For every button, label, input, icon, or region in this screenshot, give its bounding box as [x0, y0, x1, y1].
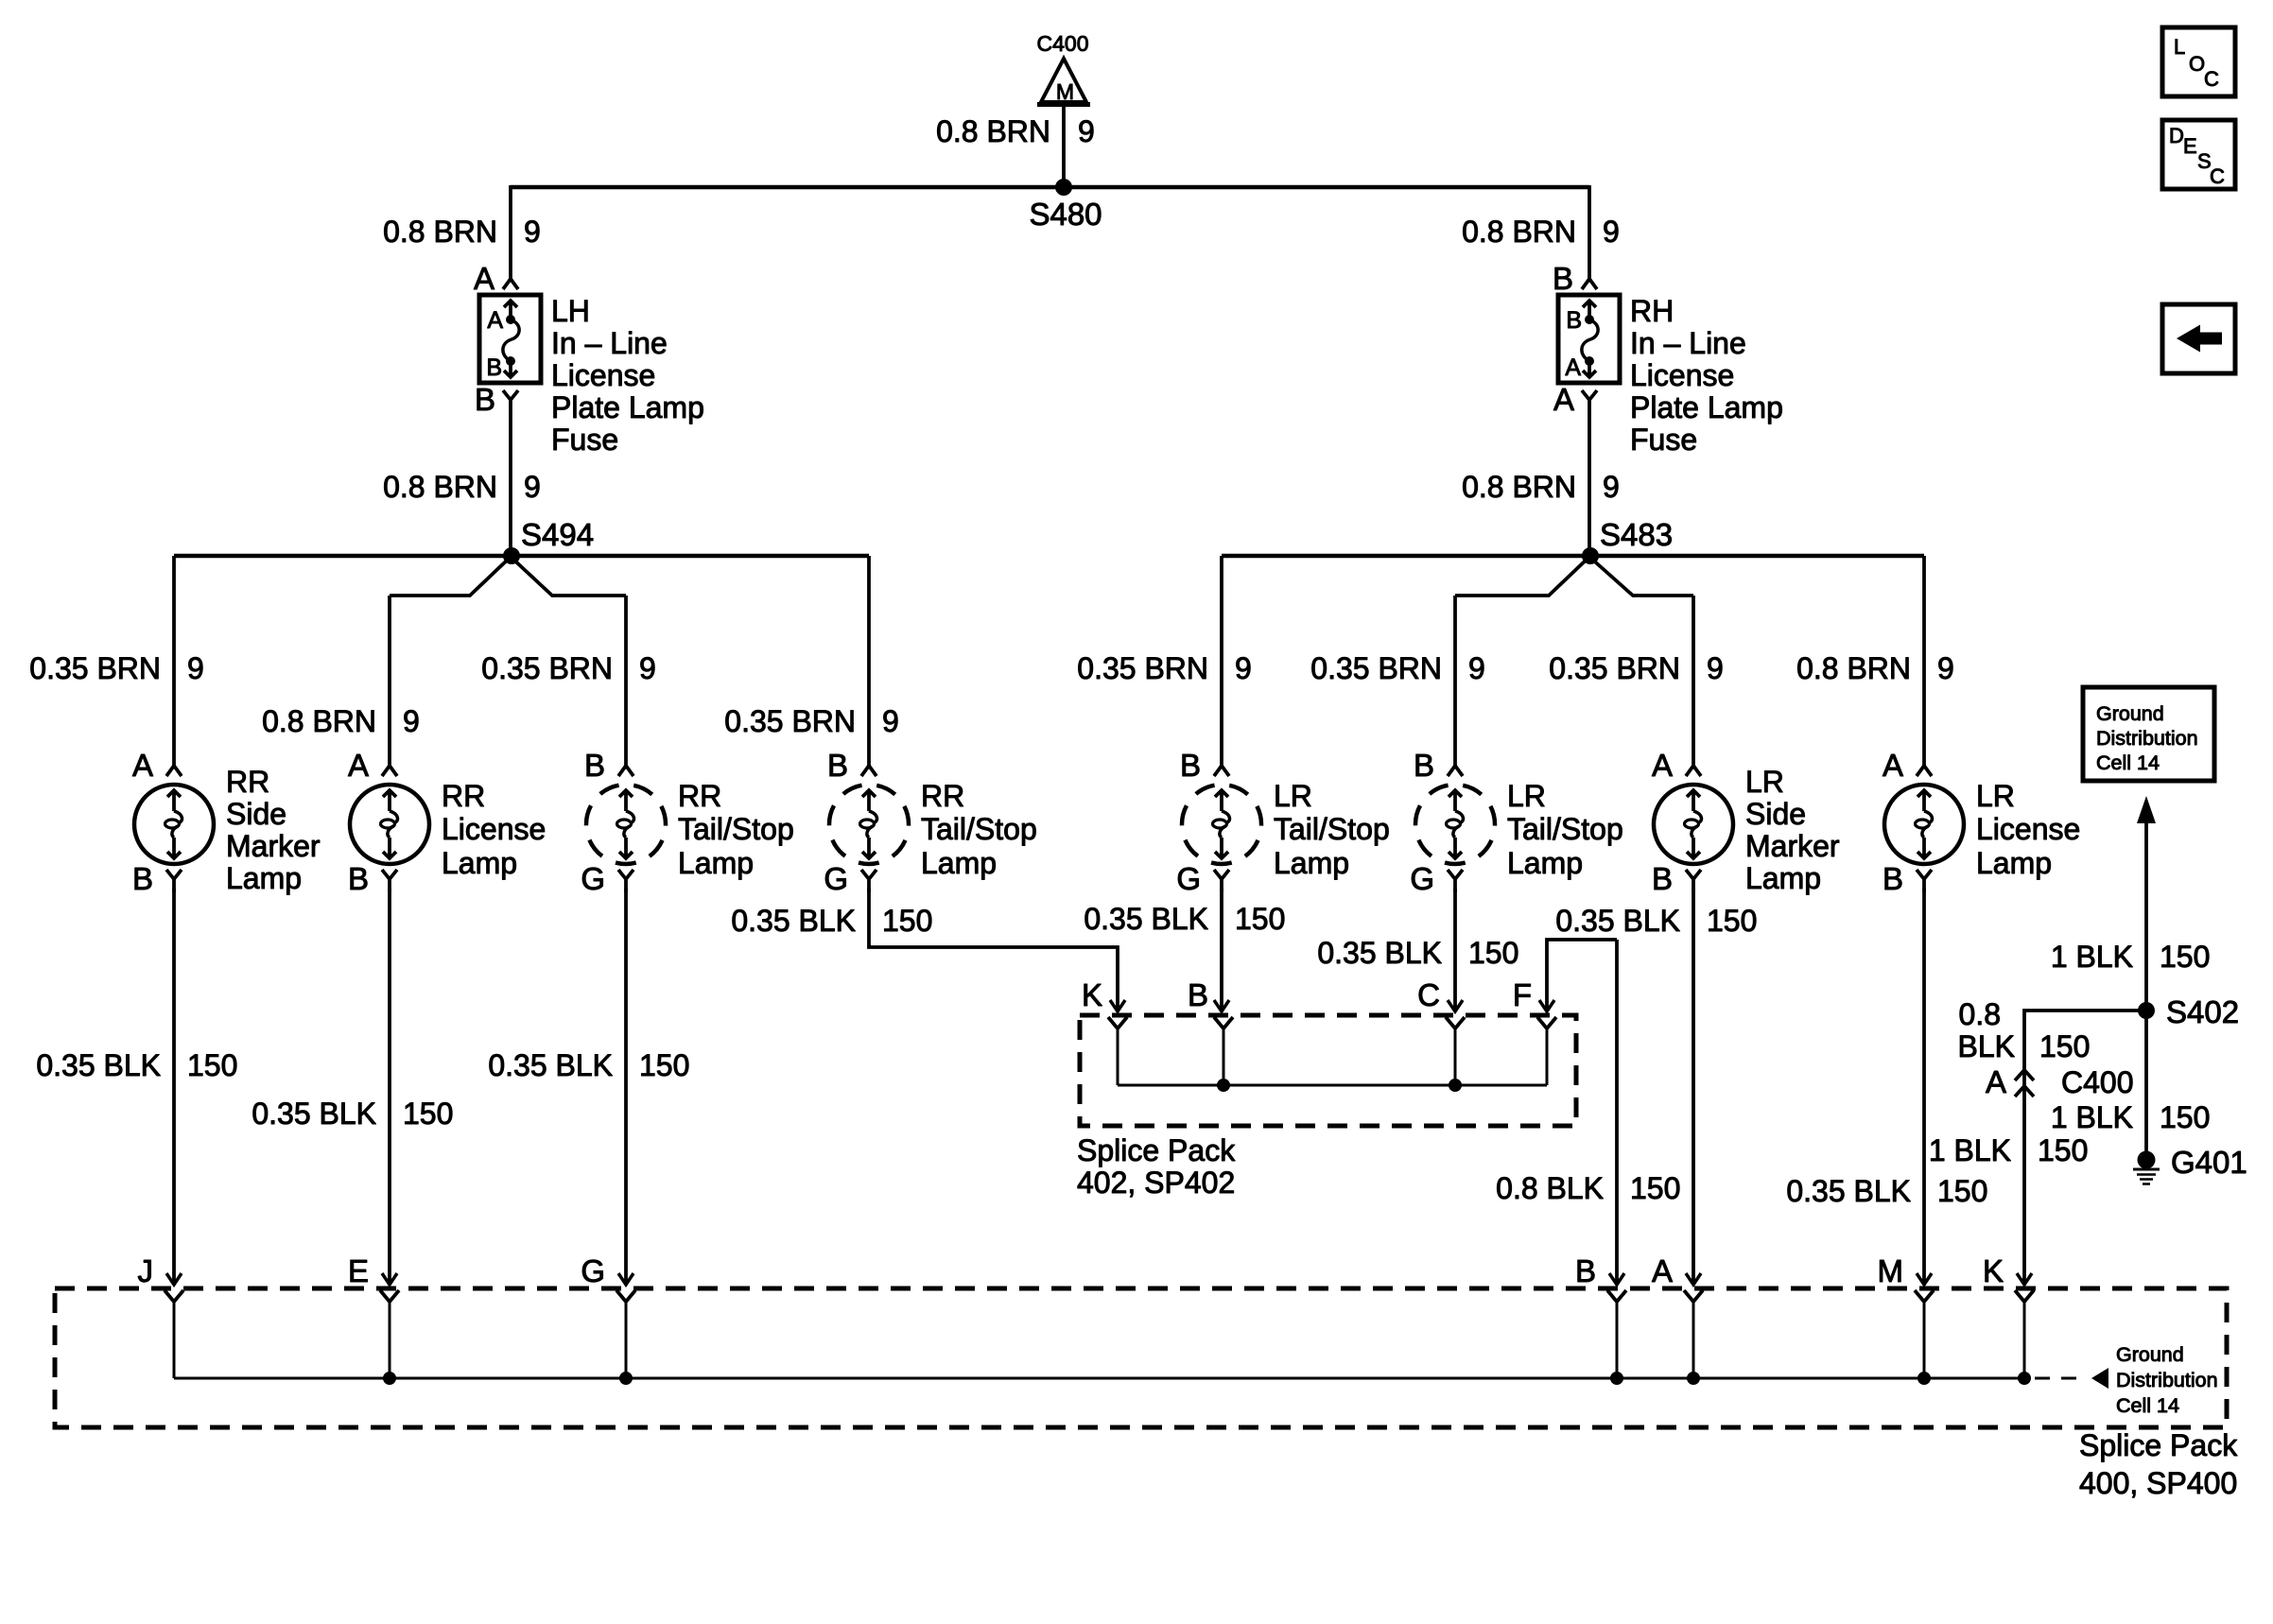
wire SP402 F to SP400 B, 0.8 BLK 150 — [1496, 940, 1680, 1285]
svg-text:C400: C400 — [1037, 31, 1089, 56]
svg-text:License: License — [551, 358, 655, 392]
svg-text:A: A — [487, 307, 503, 334]
svg-text:1 BLK: 1 BLK — [2051, 1100, 2133, 1134]
wire feed to lamp 4, 0.35 BRN 9 — [724, 556, 899, 766]
lamp filament — [172, 790, 176, 811]
splice pack SP400 terminal A — [1652, 1253, 1703, 1378]
svg-text:9: 9 — [524, 215, 541, 249]
svg-text:0.8: 0.8 — [1959, 997, 2001, 1031]
lamp bulb circle — [1654, 785, 1733, 864]
svg-text:9: 9 — [187, 651, 204, 685]
svg-text:9: 9 — [1603, 215, 1620, 249]
svg-text:LR: LR — [1507, 779, 1546, 813]
svg-text:RR: RR — [442, 779, 485, 813]
svg-text:9: 9 — [639, 651, 656, 685]
svg-text:K: K — [1082, 977, 1102, 1012]
splice pack SP402 terminal C — [1417, 977, 1465, 1085]
lamp bulb circle — [829, 785, 909, 864]
lamp filament — [388, 790, 391, 811]
svg-text:0.8 BRN: 0.8 BRN — [1462, 215, 1576, 249]
svg-text:150: 150 — [2160, 940, 2210, 974]
svg-text:B: B — [1414, 748, 1434, 783]
svg-text:9: 9 — [1707, 651, 1724, 685]
wire S402 branch label 1 BLK 150 — [1929, 1133, 2089, 1167]
wire top bus — [511, 185, 1589, 190]
svg-text:C: C — [1417, 977, 1440, 1012]
svg-text:150: 150 — [1235, 902, 1285, 936]
wire S402 branch 0.8 BLK 150 — [1958, 997, 2146, 1285]
svg-text:BLK: BLK — [1958, 1029, 2015, 1063]
svg-text:Distribution: Distribution — [2116, 1369, 2218, 1391]
wire LR Tail/Stop Lamp 1 ground to SP402 B, 0.35 BLK 150 — [1084, 889, 1285, 1011]
svg-text:In – Line: In – Line — [551, 326, 668, 360]
svg-text:Cell 14: Cell 14 — [2096, 752, 2160, 774]
lamp filament — [624, 790, 628, 811]
svg-text:License: License — [442, 812, 546, 846]
svg-text:A: A — [1986, 1064, 2006, 1099]
splice pack SP402 internal bus — [1118, 1079, 1547, 1092]
svg-text:B: B — [827, 748, 848, 783]
fuse body box — [1558, 295, 1620, 383]
lamp bulb circle — [1884, 785, 1964, 864]
svg-text:Marker: Marker — [1745, 829, 1840, 863]
svg-text:Side: Side — [226, 797, 286, 831]
svg-text:Marker: Marker — [226, 829, 321, 863]
svg-text:9: 9 — [1468, 651, 1485, 685]
wire RR Side Marker Lamp ground to SP400 J, 0.35 BLK 150 — [36, 889, 237, 1285]
wire arrow up to Ground Distribution Cell 14, 1 BLK 150 — [2051, 796, 2211, 1011]
splice pack SP402 terminal K — [1082, 977, 1127, 1085]
svg-text:B: B — [584, 748, 605, 783]
svg-text:B: B — [486, 354, 502, 381]
svg-text:G: G — [1176, 861, 1201, 896]
svg-text:C: C — [2204, 67, 2219, 91]
wire LR Side Marker Lamp ground to SP400 A, 0.35 BLK 150 — [1555, 889, 1757, 1285]
svg-text:Lamp: Lamp — [442, 846, 517, 880]
lamp LR License Lamp — [1883, 748, 2080, 896]
fuse LH In-Line License Plate Lamp Fuse — [474, 261, 704, 457]
wire feed to lamp 2, 0.8 BRN 9 — [262, 596, 420, 766]
wire feed to lamp 1, 0.35 BRN 9 — [29, 556, 204, 766]
splice pack SP400 label — [2079, 1428, 2238, 1500]
splice pack SP400 terminal K — [1983, 1253, 2034, 1378]
svg-text:9: 9 — [1603, 470, 1620, 504]
splice pack SP402 box — [1080, 1015, 1576, 1126]
svg-text:A: A — [132, 748, 153, 783]
wire LR License Lamp ground to SP400 M, 0.35 BLK 150 — [1786, 889, 1987, 1285]
svg-text:O: O — [2189, 52, 2205, 76]
svg-text:0.35 BLK: 0.35 BLK — [1786, 1174, 1911, 1208]
svg-text:A: A — [1652, 1253, 1673, 1288]
svg-text:Side: Side — [1745, 797, 1806, 831]
svg-text:G: G — [581, 1253, 605, 1288]
svg-text:0.35 BLK: 0.35 BLK — [1084, 902, 1208, 936]
svg-text:150: 150 — [403, 1097, 453, 1131]
lamp LR Side Marker Lamp — [1652, 748, 1840, 896]
lamp bulb circle — [1182, 785, 1261, 864]
svg-text:0.8 BRN: 0.8 BRN — [383, 215, 497, 249]
svg-text:RR: RR — [921, 779, 964, 813]
svg-text:K: K — [1983, 1253, 2004, 1288]
legend box DESC — [2162, 120, 2235, 189]
lamp filament — [1220, 790, 1223, 811]
lamp RR Tail/Stop Lamp 2 — [824, 748, 1036, 896]
fuse element — [1588, 301, 1591, 316]
wire RR Tail/Stop Lamp 2 ground to SP402 K, 0.35 BLK 150 — [731, 889, 1125, 1011]
fuse body box — [479, 295, 541, 383]
svg-text:0.35 BLK: 0.35 BLK — [488, 1048, 613, 1082]
svg-text:9: 9 — [1235, 651, 1252, 685]
svg-text:LR: LR — [1976, 779, 2015, 813]
ground G401 — [2133, 1145, 2247, 1184]
svg-text:J: J — [138, 1253, 154, 1288]
svg-text:D: D — [2169, 124, 2184, 147]
svg-text:L: L — [2174, 35, 2185, 59]
svg-text:Tail/Stop: Tail/Stop — [921, 812, 1037, 846]
svg-text:Splice Pack: Splice Pack — [1077, 1133, 1236, 1167]
svg-text:F: F — [1513, 977, 1532, 1012]
svg-text:9: 9 — [1078, 114, 1095, 148]
svg-text:9: 9 — [524, 470, 541, 504]
splice pack SP400 box — [55, 1288, 2227, 1427]
svg-text:B: B — [475, 382, 495, 417]
svg-text:0.35 BRN: 0.35 BRN — [29, 651, 161, 685]
fuse element — [509, 301, 512, 316]
node S494 — [503, 517, 594, 564]
svg-text:B: B — [1180, 748, 1201, 783]
svg-text:Cell 14: Cell 14 — [2116, 1394, 2179, 1417]
splice pack SP400 terminal J — [138, 1253, 184, 1378]
svg-text:Tail/Stop: Tail/Stop — [1274, 812, 1390, 846]
lamp filament — [867, 790, 871, 811]
wire left bracket from S494 — [390, 557, 626, 596]
svg-text:LH: LH — [551, 294, 590, 328]
svg-text:0.35 BRN: 0.35 BRN — [1549, 651, 1680, 685]
wire C400 to S480, 0.8 BRN 9 — [936, 105, 1095, 187]
wire RH fuse to S483, 0.8 BRN 9 — [1462, 412, 1620, 556]
svg-text:0.35 BLK: 0.35 BLK — [1317, 936, 1442, 970]
svg-text:A: A — [1652, 748, 1673, 783]
svg-text:S483: S483 — [1600, 517, 1673, 552]
wire LH fuse to S494, 0.8 BRN 9 — [383, 412, 541, 556]
svg-text:G: G — [1410, 861, 1434, 896]
lamp bulb circle — [1415, 785, 1495, 864]
svg-text:LR: LR — [1745, 765, 1784, 799]
svg-text:B: B — [1575, 1253, 1596, 1288]
svg-text:G401: G401 — [2171, 1145, 2247, 1180]
svg-text:1 BLK: 1 BLK — [1929, 1133, 2011, 1167]
svg-text:A: A — [348, 748, 369, 783]
node S402 — [2138, 994, 2239, 1029]
svg-text:Lamp: Lamp — [1274, 846, 1349, 880]
svg-text:0.35 BRN: 0.35 BRN — [1077, 651, 1208, 685]
wire feed to lamp 6, 0.35 BRN 9 — [1310, 596, 1485, 766]
svg-text:Lamp: Lamp — [1976, 846, 2052, 880]
connector C400 in-line on ground wire, pin A — [1986, 1064, 2134, 1099]
svg-text:150: 150 — [1707, 904, 1757, 938]
svg-text:150: 150 — [187, 1048, 237, 1082]
svg-text:M: M — [1056, 79, 1074, 104]
svg-text:9: 9 — [882, 704, 899, 738]
svg-text:0.35 BLK: 0.35 BLK — [252, 1097, 376, 1131]
svg-text:400, SP400: 400, SP400 — [2079, 1466, 2237, 1500]
lamp filament — [1692, 790, 1695, 811]
svg-text:Fuse: Fuse — [551, 423, 618, 457]
svg-text:402, SP402: 402, SP402 — [1077, 1166, 1235, 1200]
svg-text:Lamp: Lamp — [921, 846, 997, 880]
lamp RR Side Marker Lamp — [132, 748, 321, 896]
svg-text:0.35 BRN: 0.35 BRN — [1310, 651, 1442, 685]
svg-text:Ground: Ground — [2116, 1343, 2184, 1366]
lamp LR Tail/Stop Lamp 2 — [1410, 748, 1622, 896]
lamp RR License Lamp — [348, 748, 546, 896]
svg-text:150: 150 — [1468, 936, 1518, 970]
svg-text:A: A — [1883, 748, 1903, 783]
wire RR License Lamp ground to SP400 E, 0.35 BLK 150 — [252, 889, 453, 1285]
svg-text:B: B — [132, 861, 153, 896]
wire SP402 F jog — [1539, 940, 1617, 1011]
node S480 — [1029, 179, 1102, 232]
wire right bus — [1222, 554, 1924, 559]
legend box LOC — [2162, 27, 2235, 96]
wire LR Tail/Stop Lamp 2 ground to SP402 C, 0.35 BLK 150 — [1317, 889, 1518, 1011]
box Ground Distribution Cell 14 — [2083, 687, 2214, 781]
svg-text:LR: LR — [1274, 779, 1312, 813]
svg-text:9: 9 — [403, 704, 420, 738]
wire feed to lamp 8, 0.8 BRN 9 — [1796, 556, 1954, 766]
svg-text:150: 150 — [2038, 1133, 2088, 1167]
svg-text:B: B — [1883, 861, 1903, 896]
svg-text:C400: C400 — [2061, 1065, 2134, 1099]
splice pack SP400 terminal B — [1575, 1253, 1626, 1378]
svg-text:RR: RR — [678, 779, 721, 813]
node S483 — [1582, 517, 1673, 564]
svg-text:Plate Lamp: Plate Lamp — [551, 390, 704, 424]
svg-text:B: B — [1188, 977, 1208, 1012]
svg-text:150: 150 — [639, 1048, 689, 1082]
wire feed to lamp 3, 0.35 BRN 9 — [481, 596, 656, 766]
svg-text:B: B — [1652, 861, 1673, 896]
svg-text:G: G — [581, 861, 605, 896]
svg-text:C: C — [2210, 164, 2225, 188]
splice pack SP400 internal bus — [174, 1372, 2031, 1385]
splice pack SP400 terminal G — [581, 1253, 635, 1378]
svg-text:Fuse: Fuse — [1630, 423, 1697, 457]
legend box back arrow — [2162, 304, 2235, 373]
lamp filament — [1453, 790, 1457, 811]
wire feed to lamp 7, 0.35 BRN 9 — [1549, 596, 1724, 766]
wire right bracket from S483 — [1455, 557, 1693, 596]
svg-text:0.8 BRN: 0.8 BRN — [1462, 470, 1576, 504]
splice pack SP402 terminal B — [1188, 977, 1233, 1085]
svg-text:Splice Pack: Splice Pack — [2079, 1428, 2238, 1462]
svg-text:0.8 BRN: 0.8 BRN — [1796, 651, 1911, 685]
wire left bus — [174, 554, 869, 559]
svg-text:0.35 BRN: 0.35 BRN — [724, 704, 856, 738]
svg-text:Tail/Stop: Tail/Stop — [678, 812, 794, 846]
svg-text:Lamp: Lamp — [678, 846, 754, 880]
svg-text:Distribution: Distribution — [2096, 727, 2198, 750]
svg-text:B: B — [1553, 261, 1573, 296]
lamp bulb circle — [350, 785, 429, 864]
svg-text:Lamp: Lamp — [226, 861, 302, 895]
svg-text:License: License — [1630, 358, 1734, 392]
svg-text:In – Line: In – Line — [1630, 326, 1746, 360]
svg-text:S480: S480 — [1029, 197, 1102, 232]
svg-text:9: 9 — [1937, 651, 1954, 685]
splice pack SP400 terminal M — [1878, 1253, 1935, 1378]
svg-text:S402: S402 — [2166, 994, 2239, 1029]
svg-text:Tail/Stop: Tail/Stop — [1507, 812, 1623, 846]
svg-text:0.8 BRN: 0.8 BRN — [262, 704, 376, 738]
lamp bulb circle — [134, 785, 214, 864]
svg-text:Ground: Ground — [2096, 702, 2164, 725]
splice pack SP402 label — [1077, 1133, 1236, 1200]
svg-text:RR: RR — [226, 765, 269, 799]
svg-text:M: M — [1878, 1253, 1904, 1288]
svg-text:150: 150 — [2160, 1100, 2210, 1134]
svg-text:150: 150 — [1937, 1174, 1987, 1208]
lamp filament — [1922, 790, 1926, 811]
svg-text:A: A — [1553, 382, 1574, 417]
svg-text:E: E — [2183, 134, 2197, 158]
svg-text:150: 150 — [2039, 1029, 2090, 1063]
svg-text:0.8 BRN: 0.8 BRN — [936, 114, 1050, 148]
svg-text:0.35 BLK: 0.35 BLK — [731, 904, 856, 938]
svg-text:A: A — [474, 261, 495, 296]
svg-text:150: 150 — [1630, 1171, 1680, 1205]
wire S402 to G401, 1 BLK 150 — [2051, 1011, 2211, 1160]
svg-text:1 BLK: 1 BLK — [2051, 940, 2133, 974]
svg-text:0.8 BLK: 0.8 BLK — [1496, 1171, 1604, 1205]
svg-text:150: 150 — [882, 904, 932, 938]
lamp bulb circle — [586, 785, 666, 864]
svg-text:0.35 BLK: 0.35 BLK — [36, 1048, 161, 1082]
connector C400 triangle (M) — [1037, 31, 1090, 105]
svg-text:Lamp: Lamp — [1507, 846, 1583, 880]
wire dashed link to Ground Distribution Cell 14 — [2035, 1343, 2218, 1417]
svg-text:License: License — [1976, 812, 2080, 846]
svg-text:Lamp: Lamp — [1745, 861, 1821, 895]
svg-text:A: A — [1565, 354, 1581, 381]
svg-text:RH: RH — [1630, 294, 1674, 328]
splice pack SP400 terminal E — [348, 1253, 399, 1378]
svg-text:Plate Lamp: Plate Lamp — [1630, 390, 1783, 424]
splice pack SP402 terminal F — [1513, 977, 1556, 1085]
svg-text:G: G — [824, 861, 848, 896]
lamp LR Tail/Stop Lamp 1 — [1176, 748, 1389, 896]
svg-text:B: B — [348, 861, 369, 896]
svg-text:S494: S494 — [521, 517, 594, 552]
svg-text:B: B — [1566, 307, 1582, 334]
wire feed to lamp 5, 0.35 BRN 9 — [1077, 556, 1252, 766]
svg-text:0.35 BLK: 0.35 BLK — [1555, 904, 1680, 938]
svg-text:E: E — [348, 1253, 369, 1288]
svg-text:0.35 BRN: 0.35 BRN — [481, 651, 613, 685]
lamp RR Tail/Stop Lamp 1 — [581, 748, 793, 896]
svg-text:0.8 BRN: 0.8 BRN — [383, 470, 497, 504]
wire top bus to RH fuse, 0.8 BRN 9 — [1462, 185, 1620, 279]
fuse RH In-Line License Plate Lamp Fuse — [1553, 261, 1783, 457]
wire RR Tail/Stop Lamp 1 ground to SP400 G, 0.35 BLK 150 — [488, 889, 689, 1285]
wire top bus to LH fuse, 0.8 BRN 9 — [383, 185, 541, 279]
